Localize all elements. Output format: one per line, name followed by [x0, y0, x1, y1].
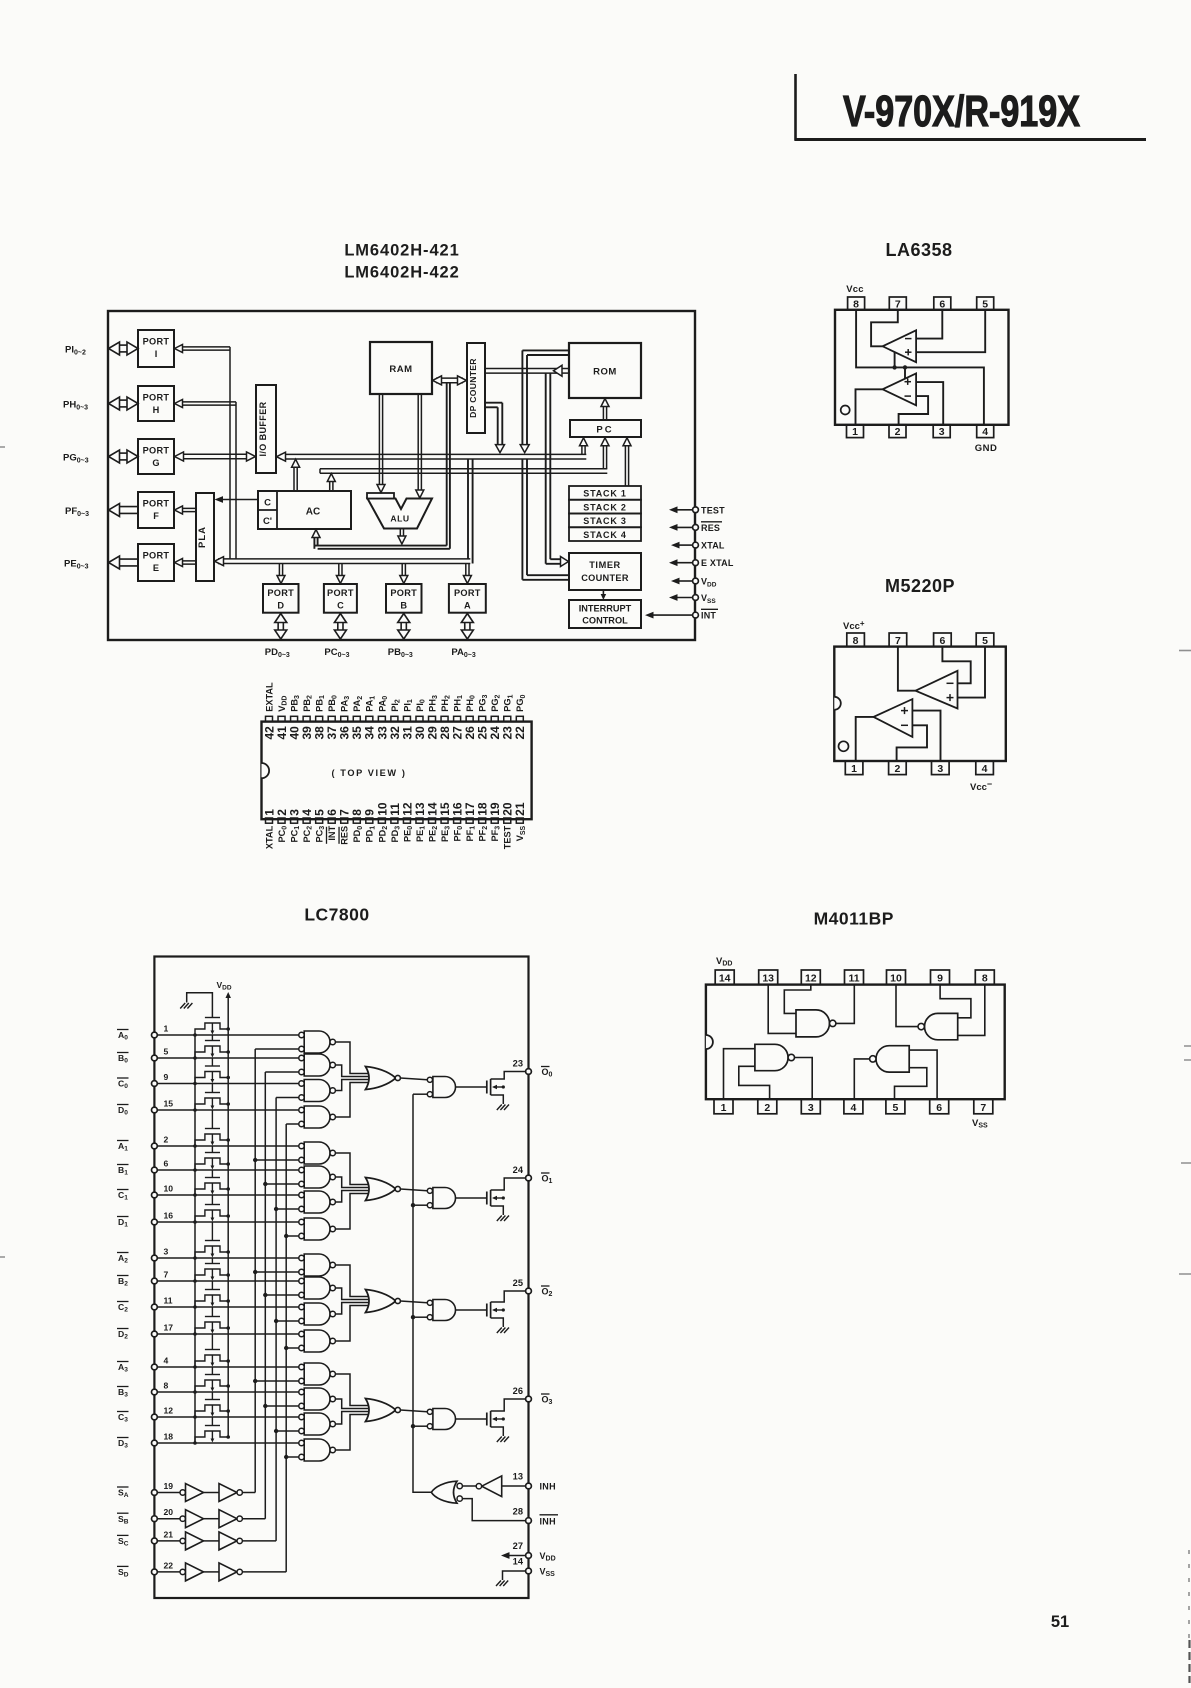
svg-text:6: 6: [936, 1102, 942, 1114]
svg-text:STACK 3: STACK 3: [583, 516, 626, 526]
svg-text:8: 8: [164, 1381, 169, 1391]
svg-text:6: 6: [164, 1159, 169, 1169]
svg-text:PORT: PORT: [454, 588, 481, 598]
svg-text:F: F: [153, 511, 159, 521]
svg-text:PORT: PORT: [143, 499, 170, 509]
svg-text:LM6402H-422: LM6402H-422: [344, 264, 459, 282]
svg-text:6: 6: [939, 635, 945, 647]
svg-text:PORT: PORT: [143, 337, 170, 347]
svg-text:1: 1: [852, 426, 858, 438]
svg-text:14: 14: [719, 973, 731, 985]
svg-text:5: 5: [982, 635, 988, 647]
svg-text:21: 21: [513, 802, 527, 816]
svg-text:INT: INT: [701, 611, 716, 621]
svg-text:9: 9: [937, 973, 943, 985]
svg-text:3: 3: [939, 426, 945, 438]
svg-text:M5220P: M5220P: [885, 576, 955, 596]
svg-text:1: 1: [851, 763, 857, 775]
svg-text:PORT: PORT: [267, 588, 294, 598]
svg-text:INH: INH: [540, 1482, 556, 1492]
svg-text:7: 7: [164, 1270, 169, 1280]
svg-text:COUNTER: COUNTER: [581, 573, 629, 583]
svg-text:4: 4: [982, 426, 988, 438]
svg-text:PORT: PORT: [143, 551, 170, 561]
svg-text:11: 11: [164, 1296, 173, 1306]
svg-text:RES: RES: [701, 523, 720, 533]
svg-text:8: 8: [853, 298, 859, 310]
svg-text:STACK 4: STACK 4: [583, 530, 626, 540]
svg-text:20: 20: [164, 1507, 174, 1517]
svg-text:7: 7: [980, 1102, 986, 1114]
svg-text:B: B: [400, 601, 407, 611]
svg-text:10: 10: [164, 1184, 174, 1194]
svg-text:21: 21: [164, 1529, 174, 1539]
svg-text:12: 12: [164, 1406, 174, 1416]
svg-text:15: 15: [164, 1099, 174, 1109]
svg-text:AC: AC: [306, 507, 320, 518]
svg-text:2: 2: [895, 426, 901, 438]
svg-text:11: 11: [848, 973, 859, 985]
svg-text:E: E: [153, 563, 159, 573]
svg-text:PORT: PORT: [390, 588, 417, 598]
svg-text:LC7800: LC7800: [304, 905, 369, 925]
svg-text:PORT: PORT: [143, 393, 170, 403]
svg-text:13: 13: [513, 1472, 523, 1482]
svg-text:EXTAL: EXTAL: [264, 682, 274, 712]
svg-text:9: 9: [164, 1072, 169, 1082]
svg-text:26: 26: [513, 1386, 523, 1396]
svg-text:XTAL: XTAL: [264, 825, 274, 849]
svg-text:STACK 1: STACK 1: [583, 489, 626, 499]
svg-text:23: 23: [513, 1059, 523, 1069]
svg-text:2: 2: [164, 1135, 169, 1145]
svg-text:28: 28: [513, 1507, 523, 1517]
svg-text:22: 22: [164, 1560, 174, 1570]
svg-text:TEST: TEST: [503, 825, 513, 849]
svg-text:V-970X/R-919X: V-970X/R-919X: [843, 87, 1080, 136]
svg-text:INTERRUPT: INTERRUPT: [579, 604, 632, 614]
svg-text:25: 25: [513, 1278, 523, 1288]
svg-text:DP COUNTER: DP COUNTER: [468, 358, 478, 418]
svg-text:Vcc: Vcc: [846, 284, 864, 295]
svg-text:LA6358: LA6358: [885, 240, 952, 260]
svg-text:CONTROL: CONTROL: [582, 616, 628, 626]
svg-text:6: 6: [939, 298, 945, 310]
svg-text:PLA: PLA: [197, 526, 208, 548]
svg-text:A: A: [464, 601, 471, 611]
svg-text:( TOP VIEW ): ( TOP VIEW ): [331, 768, 406, 778]
svg-text:RES: RES: [340, 826, 350, 845]
svg-text:5: 5: [892, 1102, 898, 1114]
svg-text:G: G: [152, 458, 159, 468]
svg-text:C: C: [264, 498, 271, 509]
svg-text:8: 8: [853, 635, 859, 647]
svg-text:5: 5: [164, 1047, 169, 1057]
svg-text:C: C: [337, 601, 344, 611]
svg-text:7: 7: [895, 298, 901, 310]
svg-text:4: 4: [850, 1102, 856, 1114]
svg-text:E XTAL: E XTAL: [701, 558, 734, 568]
svg-text:4: 4: [164, 1356, 169, 1366]
svg-text:3: 3: [937, 763, 943, 775]
svg-text:22: 22: [513, 726, 527, 740]
svg-text:PC: PC: [596, 425, 613, 436]
svg-text:PORT: PORT: [143, 446, 170, 456]
svg-text:12: 12: [805, 973, 817, 985]
svg-text:ALU: ALU: [390, 514, 409, 524]
svg-text:PORT: PORT: [327, 588, 354, 598]
svg-text:1: 1: [164, 1024, 169, 1034]
svg-text:LM6402H-421: LM6402H-421: [344, 242, 459, 260]
svg-text:I: I: [155, 349, 158, 359]
svg-text:16: 16: [164, 1211, 174, 1221]
svg-text:4: 4: [982, 763, 988, 775]
svg-text:2: 2: [894, 763, 900, 775]
svg-text:TEST: TEST: [701, 505, 725, 515]
svg-text:24: 24: [513, 1165, 524, 1175]
svg-text:INH: INH: [540, 1517, 556, 1527]
svg-text:XTAL: XTAL: [701, 541, 725, 551]
svg-text:19: 19: [164, 1481, 174, 1491]
svg-text:GND: GND: [975, 443, 998, 454]
svg-text:RAM: RAM: [389, 364, 412, 375]
svg-text:C': C': [263, 516, 272, 527]
svg-text:STACK 2: STACK 2: [583, 502, 626, 512]
svg-text:18: 18: [164, 1432, 174, 1442]
svg-text:8: 8: [982, 973, 988, 985]
svg-text:5: 5: [982, 298, 988, 310]
svg-text:1: 1: [721, 1102, 727, 1114]
svg-text:2: 2: [764, 1102, 770, 1114]
svg-text:3: 3: [164, 1247, 169, 1257]
svg-text:TIMER: TIMER: [589, 560, 621, 570]
svg-text:51: 51: [1051, 1613, 1069, 1631]
svg-text:7: 7: [895, 635, 901, 647]
svg-text:D: D: [277, 601, 284, 611]
svg-text:17: 17: [164, 1323, 174, 1333]
svg-text:I/O BUFFER: I/O BUFFER: [258, 401, 268, 456]
svg-text:10: 10: [890, 973, 902, 985]
svg-text:H: H: [153, 405, 160, 415]
svg-text:ROM: ROM: [593, 367, 617, 378]
svg-text:INT: INT: [327, 825, 337, 840]
svg-text:14: 14: [513, 1557, 524, 1567]
svg-text:3: 3: [808, 1102, 814, 1114]
svg-text:M4011BP: M4011BP: [814, 909, 894, 929]
svg-text:13: 13: [762, 973, 774, 985]
svg-text:27: 27: [513, 1541, 523, 1551]
